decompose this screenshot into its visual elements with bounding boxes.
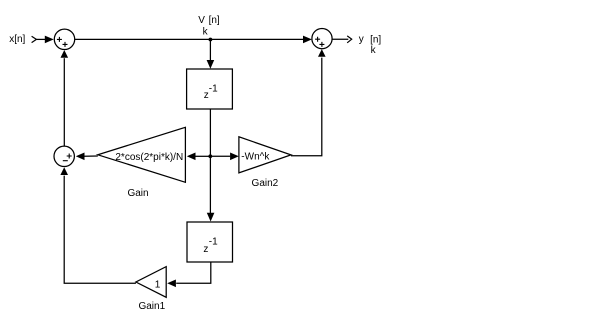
gain Gain2 triangle -Wn^k bbox=[239, 137, 291, 173]
wire junction down to Delay1 bbox=[209, 40, 211, 61]
svg-text:Gain: Gain bbox=[127, 188, 148, 199]
wire junction to Gain (left arrow) bbox=[195, 155, 210, 157]
wire Sum to Sum2 (top horizontal) bbox=[75, 38, 304, 40]
gain Gain triangle 2*cos(2*pi*k)/N bbox=[98, 127, 186, 182]
sum Sum2 (top-right adder) bbox=[312, 28, 332, 48]
sum Sum (top-left adder) bbox=[54, 29, 74, 49]
delay block Delay1 z^-1 bbox=[187, 69, 233, 109]
node mid junction bbox=[208, 154, 212, 158]
sum Sum1 (middle-left adder) bbox=[54, 146, 74, 166]
svg-text:x[n]: x[n] bbox=[9, 34, 25, 45]
node V_k[n] junction bbox=[209, 38, 213, 42]
svg-text:[n]: [n] bbox=[370, 34, 381, 45]
svg-text:z: z bbox=[204, 90, 209, 101]
wire Gain output to Sum1 bbox=[84, 155, 98, 157]
svg-text:-1: -1 bbox=[209, 236, 218, 247]
svg-text:-Wn^k: -Wn^k bbox=[241, 151, 270, 162]
svg-text:2*cos(2*pi*k)/N: 2*cos(2*pi*k)/N bbox=[115, 152, 183, 163]
svg-text:Gain2: Gain2 bbox=[252, 178, 279, 189]
svg-text:V: V bbox=[198, 15, 205, 26]
svg-text:y: y bbox=[359, 34, 364, 45]
input port In1 bbox=[32, 36, 37, 42]
svg-text:-1: -1 bbox=[209, 83, 218, 94]
wire Delay1 to mid junction bbox=[209, 109, 211, 156]
gain Gain1 triangle 1 bbox=[136, 267, 166, 298]
delay block Delay2 z^-1 bbox=[187, 222, 233, 262]
svg-text:1: 1 bbox=[155, 279, 161, 290]
output port Out1 bbox=[347, 36, 352, 43]
wire junction to Gain2 (right arrow) bbox=[210, 155, 230, 157]
wire Delay2 output to Gain1 bbox=[176, 262, 211, 283]
wire input to sum Sum bbox=[36, 38, 45, 40]
wire Sum2 to output port bbox=[332, 38, 348, 40]
svg-text:[n]: [n] bbox=[209, 15, 220, 26]
svg-text:Gain1: Gain1 bbox=[138, 301, 165, 312]
wire Gain1 output feedback to Sum1 bbox=[64, 176, 136, 284]
svg-text:z: z bbox=[203, 244, 208, 255]
wire Sum1 output up to Sum bbox=[63, 58, 65, 146]
wire junction down to Delay2 bbox=[209, 156, 211, 213]
wire Gain2 output to Sum2 bbox=[291, 58, 322, 156]
